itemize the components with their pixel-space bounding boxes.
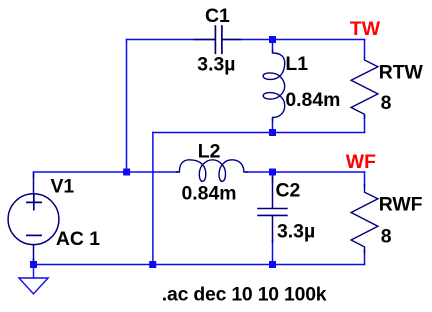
wire L2 to RWF — [247, 171, 365, 173]
capacitor C2 — [258, 177, 287, 243]
wire C2 bottom stub — [272, 240, 274, 265]
resistor RTW — [351, 58, 378, 119]
svg-text:8: 8 — [381, 92, 392, 114]
wire right rail TW node — [364, 40, 366, 58]
node junction C2 top — [269, 169, 276, 176]
svg-text:0.84m: 0.84m — [285, 89, 340, 111]
wire top rail left of C1 — [127, 39, 215, 41]
svg-text:RWF: RWF — [379, 194, 423, 216]
svg-text:L1: L1 — [285, 53, 308, 75]
wire V1 bottom stub — [33, 259, 35, 265]
wire L1 bottom stub — [272, 120, 274, 133]
wire left rail — [126, 40, 128, 173]
wire bottom rail — [34, 264, 365, 266]
svg-text:V1: V1 — [51, 176, 75, 198]
svg-text:WF: WF — [346, 151, 376, 173]
node junction left rail / V1 — [123, 169, 130, 176]
wire L1 top stub — [272, 40, 274, 52]
svg-text:3.3µ: 3.3µ — [277, 220, 315, 242]
node junction L1 bottom — [269, 129, 276, 136]
svg-text:C2: C2 — [276, 179, 301, 201]
node junction V1 bottom / ground — [30, 261, 37, 268]
capacitor C1 — [194, 26, 241, 53]
wire RWF bottom — [364, 250, 366, 265]
svg-text:0.84m: 0.84m — [182, 183, 237, 205]
inductor L2 — [177, 160, 248, 182]
wire mid vertical rail — [152, 133, 154, 265]
svg-text:8: 8 — [381, 226, 392, 248]
svg-text:L2: L2 — [198, 140, 221, 162]
wire top rail right of C1 — [223, 39, 365, 41]
ground — [19, 265, 48, 294]
wire RWF top — [364, 172, 366, 187]
svg-text:3.3µ: 3.3µ — [197, 53, 235, 75]
node junction C2 bottom — [269, 261, 276, 268]
wire RTW bottom — [364, 116, 366, 133]
svg-text:RTW: RTW — [379, 61, 424, 83]
wire L1 bottom rail — [153, 132, 365, 134]
wire V1 top stub — [33, 172, 35, 177]
inductor L1 — [263, 50, 285, 121]
svg-text:.ac dec 10 10 100k: .ac dec 10 10 100k — [162, 284, 327, 306]
node junction C1-L1-TW — [269, 36, 276, 43]
svg-text:AC 1: AC 1 — [56, 228, 100, 250]
wire C2 top stub — [272, 172, 274, 182]
node junction mid rail bottom — [149, 261, 156, 268]
wire V1 to L2 — [34, 171, 178, 173]
svg-text:TW: TW — [350, 18, 381, 40]
voltage source V1 — [8, 174, 59, 262]
resistor RWF — [351, 185, 378, 253]
svg-text:C1: C1 — [205, 5, 230, 27]
